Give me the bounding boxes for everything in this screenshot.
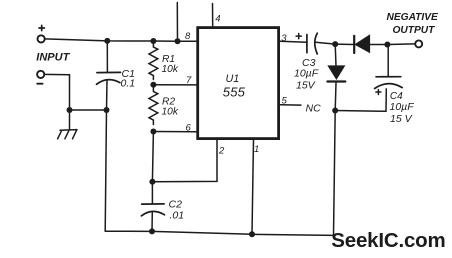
wire bottom rail [105,231,333,235]
capacitor C3 [306,35,308,53]
wire D1 bottom to ground rail [334,111,336,236]
svg-text:.01: .01 [170,210,185,222]
svg-text:7: 7 [186,75,192,86]
svg-text:555: 555 [223,85,246,100]
svg-text:15 V: 15 V [390,113,413,125]
svg-text:0.1: 0.1 [121,78,136,90]
wire pin 7 [153,84,196,86]
capacitor C1 [106,41,108,72]
svg-text:INPUT: INPUT [36,51,70,63]
diode D2 [353,36,355,53]
svg-text:15V: 15V [296,79,316,91]
resistor R1 [149,41,158,80]
svg-text:U1: U1 [226,73,240,85]
svg-text:10µF: 10µF [390,101,415,113]
wire D1 bottom to C4 bottom [335,89,386,111]
capacitor C4 [387,45,389,77]
svg-text:8: 8 [185,31,191,42]
input - terminal [37,71,44,78]
wire C1 down rail to bottom [105,110,106,231]
wire pin 3 [280,40,307,43]
wire - to C1 bottom [70,109,107,111]
label - [37,83,42,85]
wire pin 5 [280,104,301,106]
svg-text:2: 2 [218,146,225,157]
diode D1 [334,44,337,66]
svg-text:10k: 10k [162,107,179,118]
svg-text:1: 1 [254,144,259,155]
wire output junction to terminal [387,43,415,46]
wire pin4 vertical [212,4,214,27]
svg-text:SeekIC.com: SeekIC.com [331,229,445,252]
wire pin 1 [252,139,254,234]
wire from - terminal [45,74,70,110]
svg-text:NEGATIVE: NEGATIVE [387,12,440,23]
wire top rail from + to pin 8 [45,39,196,41]
wire ground stub [69,110,71,130]
op 555 box U1 [198,28,279,139]
svg-text:10k: 10k [162,64,179,75]
label + C3 [296,34,301,39]
capacitor C2 [151,182,153,204]
ground [58,130,77,139]
label + C4 [376,90,381,95]
vertical stub to top edge [176,3,178,42]
wire node A to D2 [335,43,354,45]
svg-text:6: 6 [186,122,192,133]
resistor R2 [149,85,158,125]
svg-text:NC: NC [306,103,322,115]
wire R rail to C2 [152,132,153,182]
negative output terminal [415,40,422,47]
svg-text:4: 4 [215,13,220,24]
wire pin 6 [153,131,196,133]
svg-text:10µF: 10µF [294,68,319,80]
input + terminal [38,35,45,42]
label + [39,25,44,30]
svg-text:5: 5 [282,96,288,107]
svg-text:3: 3 [281,33,287,44]
svg-text:OUTPUT: OUTPUT [393,25,436,36]
wire pin 2 [152,139,217,182]
